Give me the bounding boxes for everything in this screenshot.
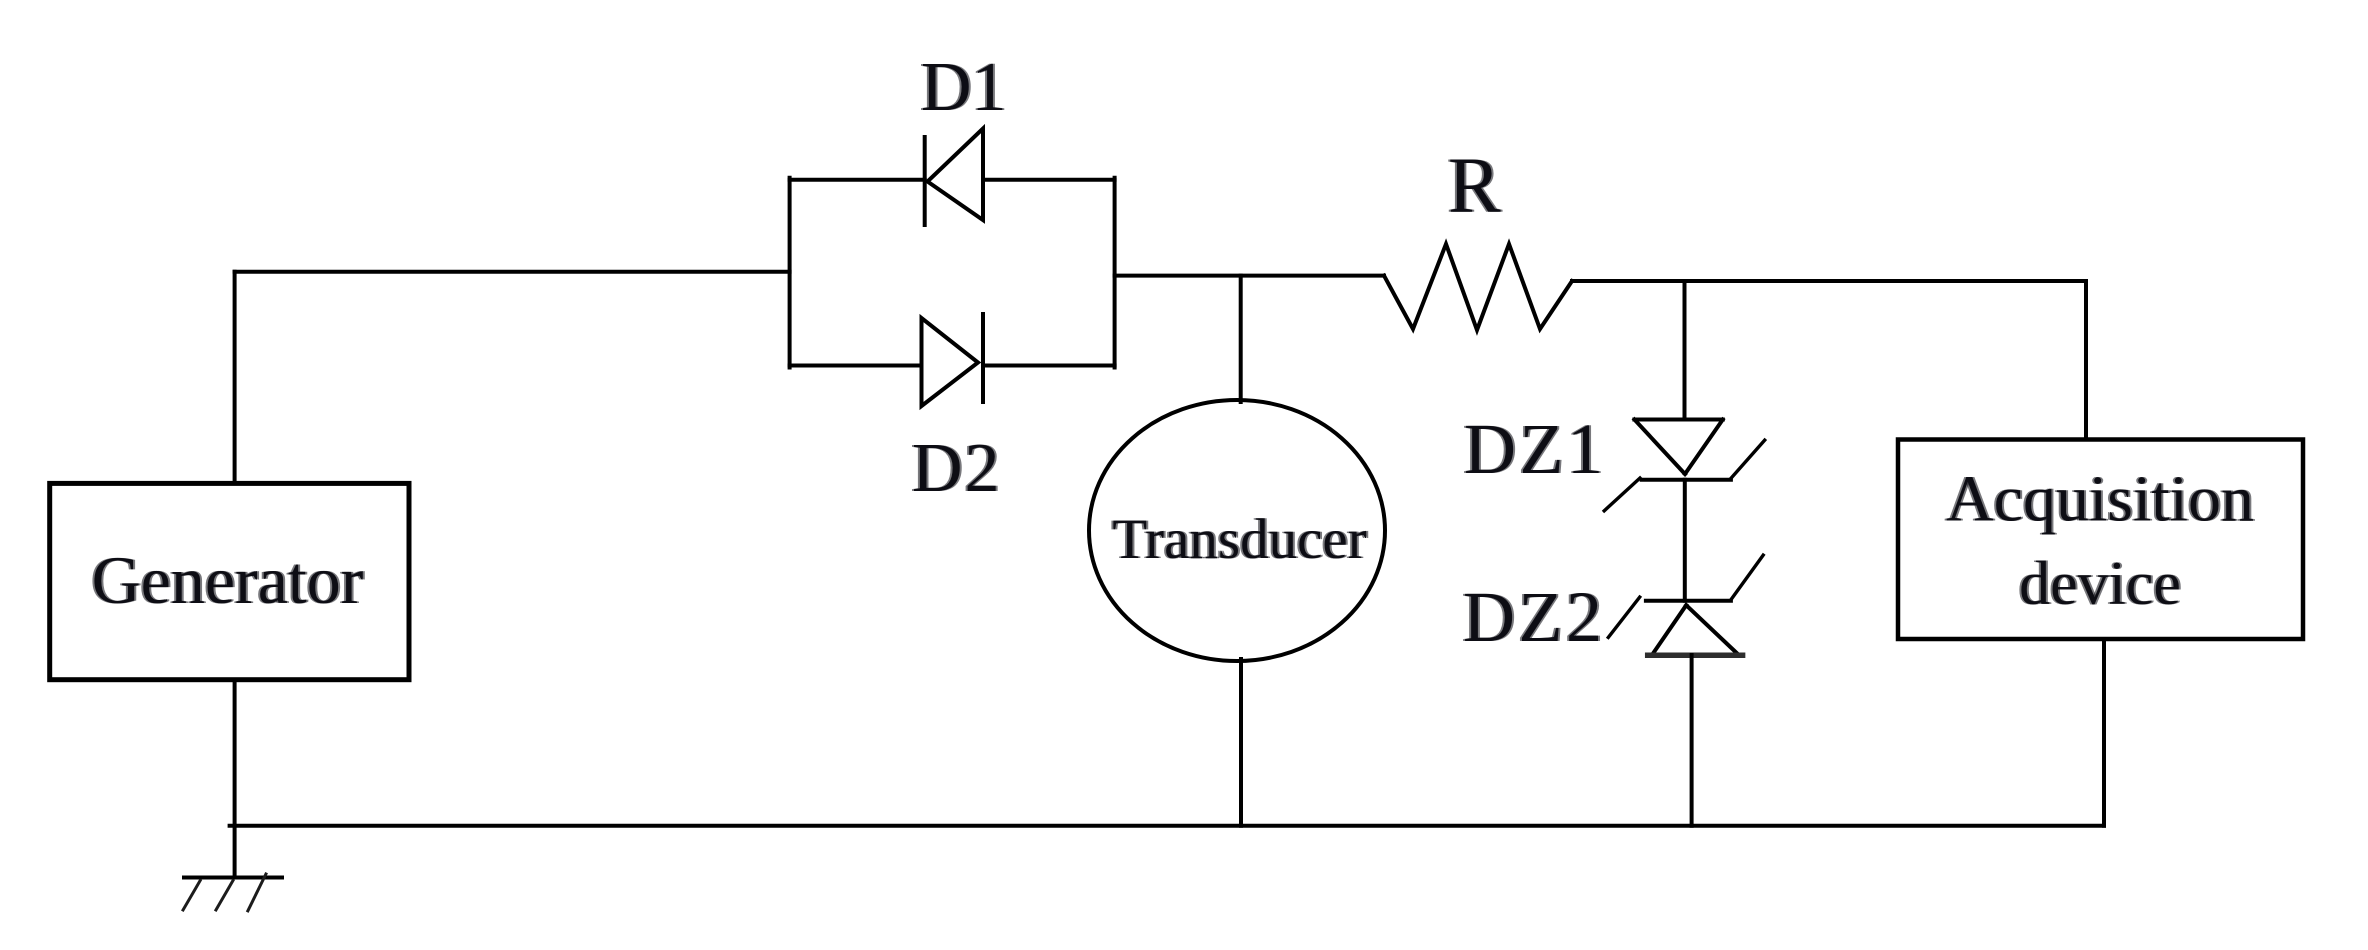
diode block left vertical	[788, 178, 792, 368]
wire top-left horizontal from generator riser to diode block	[235, 270, 790, 274]
svg-text:D2: D2	[912, 430, 1002, 507]
wire corner down to acquisition box	[2084, 281, 2088, 440]
label Transducer	[1110, 508, 1368, 571]
zener DZ2 triangle base	[1648, 653, 1743, 659]
label R	[1446, 143, 1503, 230]
diode D2 cathode bar	[981, 314, 985, 402]
wire resistor to corner	[1572, 279, 2086, 283]
resistor R zigzag	[1384, 244, 1572, 330]
zener DZ1 triangle left side	[1634, 420, 1685, 475]
svg-text:DZ2: DZ2	[1463, 577, 1605, 657]
wire acquisition bottom riser	[2102, 639, 2106, 826]
label DZ2	[1461, 577, 1607, 657]
zener DZ1 bar right tick	[1731, 440, 1765, 478]
svg-text:R: R	[1448, 143, 1501, 230]
zener DZ1 triangle right side	[1685, 420, 1723, 475]
label device	[2017, 550, 2183, 618]
svg-text:device: device	[2019, 550, 2181, 618]
diode D1 cathode bar	[923, 137, 927, 225]
wire generator top riser	[233, 272, 237, 483]
ground slashes	[182, 873, 266, 913]
svg-text:Acquisition: Acquisition	[1946, 463, 2254, 536]
wire bottom horizontal rail	[230, 824, 2104, 828]
zener DZ2 bar left tick	[1608, 597, 1639, 637]
diode block top branch wire left	[790, 178, 925, 182]
svg-text:D1: D1	[921, 49, 1007, 126]
generator box	[50, 483, 409, 679]
zener DZ2 bar right tick	[1731, 555, 1763, 600]
zener DZ2 triangle left side	[1653, 605, 1686, 653]
diode D2 triangle	[922, 318, 979, 406]
diode block right vertical	[1113, 178, 1117, 368]
zener DZ1 cathode bar	[1642, 478, 1731, 482]
transducer circle	[1089, 400, 1385, 661]
svg-text:Generator: Generator	[92, 542, 364, 618]
wire diode block to resistor	[1115, 274, 1384, 278]
zener DZ1 bar left tick	[1604, 478, 1640, 511]
acquisition device box	[1898, 440, 2303, 640]
label Acquisition	[1944, 463, 2256, 536]
zener DZ1 triangle top line	[1634, 418, 1722, 422]
wire transducer top riser	[1239, 276, 1243, 402]
wire transducer bottom riser	[1239, 659, 1243, 826]
diode block top branch wire right	[983, 178, 1115, 182]
label D1	[919, 49, 1009, 126]
diode block bottom branch wire left	[790, 364, 922, 368]
svg-text:Transducer: Transducer	[1112, 508, 1366, 571]
diode block bottom branch wire right	[983, 364, 1115, 368]
diode D1 triangle	[928, 129, 984, 221]
wire zener bottom riser	[1690, 655, 1694, 826]
svg-text:DZ1: DZ1	[1464, 409, 1606, 489]
zener DZ2 cathode bar	[1646, 599, 1731, 603]
wire between zeners	[1683, 480, 1687, 601]
ground bar	[184, 876, 282, 880]
wire generator bottom riser to ground	[233, 680, 237, 878]
zener DZ2 triangle right side	[1686, 605, 1737, 653]
label DZ1	[1462, 409, 1608, 489]
label Generator	[90, 542, 366, 618]
label D2	[910, 430, 1004, 507]
wire zener top riser	[1683, 281, 1687, 420]
